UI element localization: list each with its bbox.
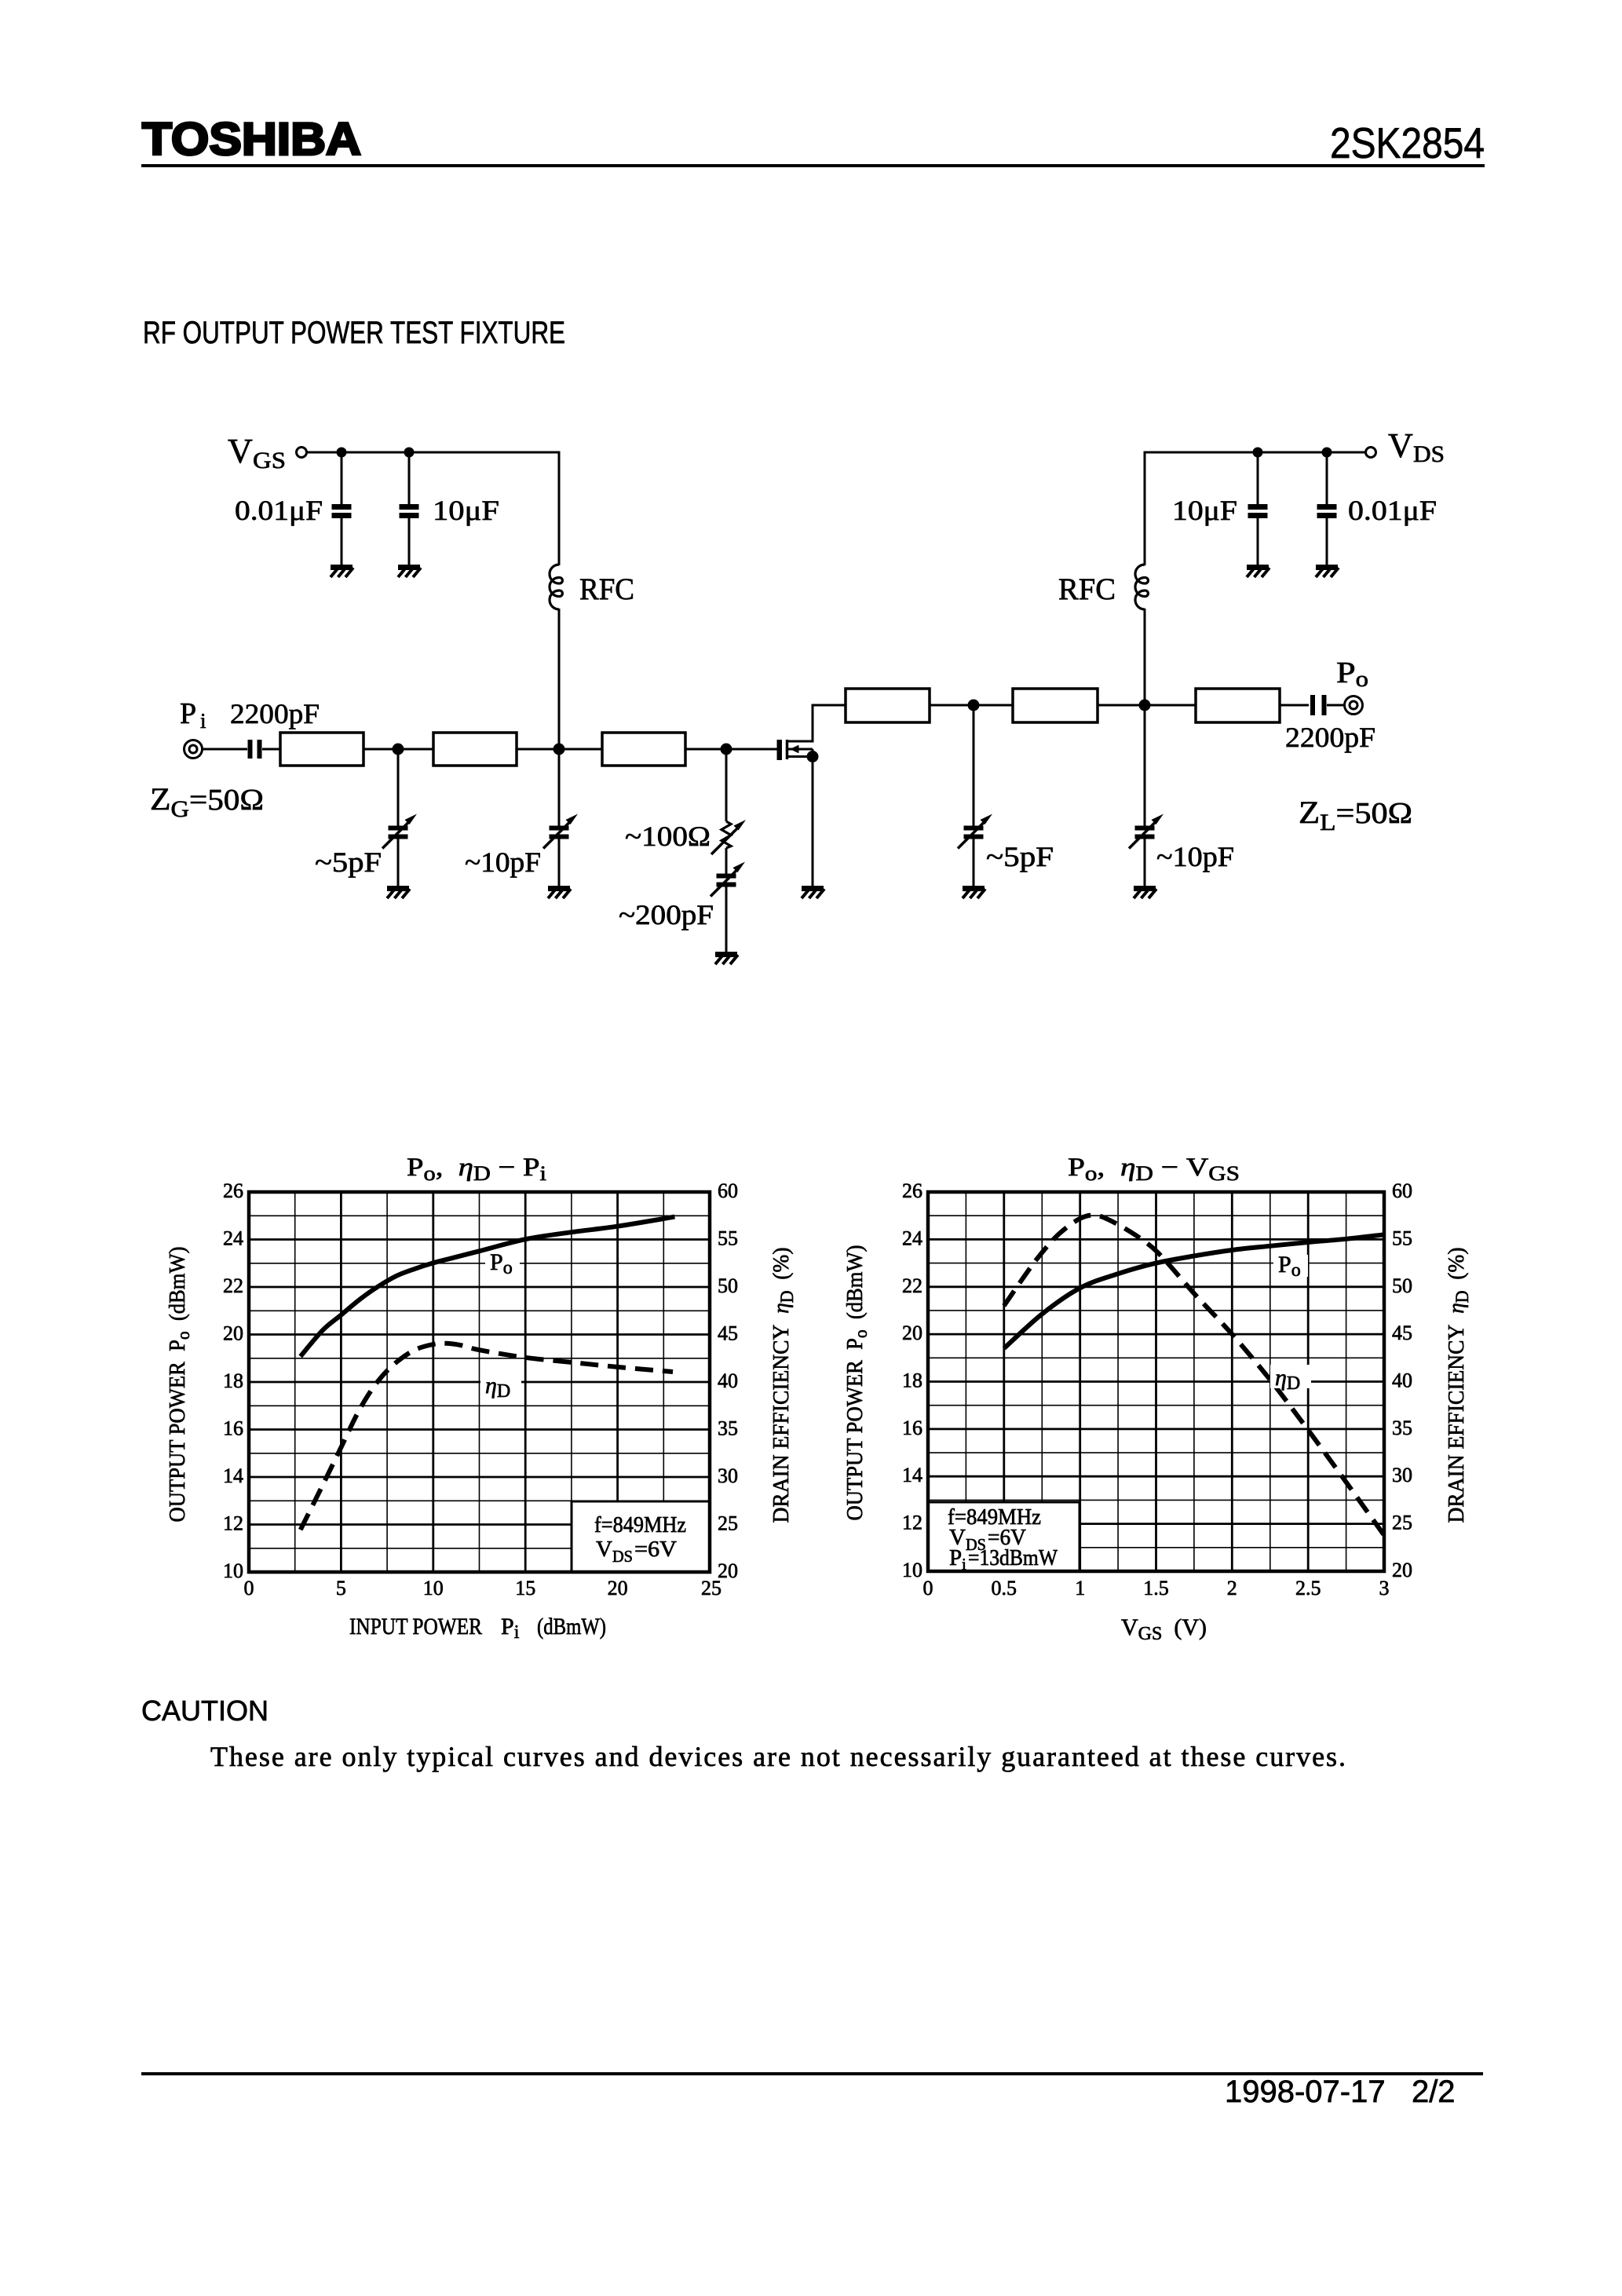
variable capacitor CV4 ~5pF bbox=[958, 814, 992, 849]
inductor RFC1 bbox=[550, 565, 562, 609]
svg-text:TOSHIBA: TOSHIBA bbox=[142, 114, 361, 165]
svg-text:=13dBmW: =13dBmW bbox=[968, 1545, 1058, 1570]
wire RFC1 to gate line junction bbox=[558, 609, 561, 749]
transmission line TL5 bbox=[1013, 689, 1098, 722]
svg-text:2200pF: 2200pF bbox=[1285, 722, 1375, 753]
wire drain line to TL4 bbox=[812, 704, 846, 707]
svg-text:20: 20 bbox=[902, 1322, 922, 1344]
transistor Q1 channel bbox=[786, 740, 789, 759]
svg-text:DRAIN EFFICIENCY ηD (%): DRAIN EFFICIENCY ηD (%) bbox=[769, 1248, 797, 1523]
svg-text:~5pF: ~5pF bbox=[315, 846, 382, 878]
capacitor C4 10uF plates bbox=[1248, 507, 1268, 516]
wire CV3 to ground bbox=[725, 887, 728, 952]
svg-text:10μF: 10μF bbox=[433, 495, 499, 526]
junction node D bbox=[968, 700, 980, 711]
graph1 curve etaD (dashed) bbox=[301, 1344, 673, 1530]
wire VDS rail drop to RFC2 bbox=[1144, 452, 1146, 566]
svg-text:50: 50 bbox=[1392, 1274, 1412, 1297]
ground under C4 bbox=[1247, 568, 1269, 578]
svg-text:=6V: =6V bbox=[634, 1537, 677, 1562]
graph1 x tick labels bbox=[244, 1577, 722, 1600]
svg-text:26: 26 bbox=[223, 1179, 243, 1202]
svg-text:10: 10 bbox=[223, 1559, 243, 1582]
svg-text:1998-07-17 2/2: 1998-07-17 2/2 bbox=[1225, 2075, 1456, 2109]
svg-text:35: 35 bbox=[718, 1417, 738, 1440]
svg-text:OUTPUT POWER Po (dBmW): OUTPUT POWER Po (dBmW) bbox=[165, 1247, 193, 1523]
svg-text:25: 25 bbox=[701, 1577, 721, 1600]
transistor Q1 source stub bbox=[787, 755, 813, 758]
wire TL3 to gate bbox=[685, 748, 777, 751]
graph2 curve Po (solid) bbox=[1004, 1234, 1384, 1348]
svg-text:P: P bbox=[949, 1545, 962, 1570]
wire node A to CV1 bbox=[397, 749, 400, 826]
wire TL5 to TL6 bbox=[1098, 704, 1196, 707]
svg-text:25: 25 bbox=[1392, 1512, 1412, 1534]
svg-text:15: 15 bbox=[515, 1577, 535, 1600]
ground under Q1 source bbox=[802, 889, 824, 899]
svg-text:12: 12 bbox=[223, 1512, 243, 1535]
graph1 frame bbox=[249, 1192, 710, 1572]
ground under C5 bbox=[1316, 568, 1339, 578]
svg-text:DS: DS bbox=[612, 1547, 633, 1566]
svg-text:RFC: RFC bbox=[1058, 572, 1116, 606]
svg-text:2.5: 2.5 bbox=[1295, 1577, 1321, 1600]
junction node C bbox=[721, 744, 732, 755]
variable capacitor CV5 ~10pF bbox=[1129, 814, 1164, 849]
svg-text:25: 25 bbox=[718, 1512, 738, 1535]
svg-text:26: 26 bbox=[902, 1179, 922, 1202]
svg-text:10μF: 10μF bbox=[1172, 495, 1237, 526]
svg-text:1: 1 bbox=[1075, 1577, 1085, 1600]
svg-text:These are only typical curves: These are only typical curves and device… bbox=[210, 1741, 1346, 1772]
wire C1 bottom lead bbox=[341, 517, 343, 565]
graph2 left tick labels bbox=[902, 1179, 922, 1581]
graph2 x tick labels bbox=[923, 1577, 1390, 1600]
svg-text:P: P bbox=[180, 697, 196, 730]
svg-text:0.01μF: 0.01μF bbox=[235, 495, 323, 526]
variable capacitor CV2 ~10pF bbox=[543, 814, 578, 849]
svg-text:ZG=50Ω: ZG=50Ω bbox=[150, 781, 264, 822]
svg-text:ZL=50Ω: ZL=50Ω bbox=[1299, 795, 1412, 835]
wire RV1 to CV3 bbox=[725, 848, 728, 874]
svg-text:~10pF: ~10pF bbox=[465, 846, 541, 878]
svg-text:18: 18 bbox=[902, 1369, 922, 1392]
wire RFC2 to drain line junction bbox=[1144, 609, 1146, 705]
transmission line TL4 bbox=[846, 689, 930, 722]
svg-text:0: 0 bbox=[923, 1577, 933, 1600]
svg-text:10: 10 bbox=[423, 1577, 444, 1600]
svg-text:5: 5 bbox=[336, 1577, 346, 1600]
svg-text:3: 3 bbox=[1379, 1577, 1390, 1600]
wire CV4 to ground bbox=[973, 839, 975, 886]
wire VGS rail bbox=[307, 452, 559, 454]
graph1 curve label etaD bbox=[480, 1373, 521, 1396]
wire VDS rail bbox=[1145, 452, 1365, 454]
transmission line TL1 bbox=[280, 733, 363, 766]
graph1 legend box bbox=[572, 1501, 710, 1572]
graph2 frame bbox=[928, 1192, 1384, 1571]
graph1 grid bbox=[249, 1192, 710, 1572]
wire C3 to TL1 bbox=[262, 748, 280, 751]
svg-text:45: 45 bbox=[1392, 1322, 1412, 1344]
transistor Q1 gate bar bbox=[777, 740, 783, 760]
ground under CV3 bbox=[715, 955, 738, 965]
svg-text:22: 22 bbox=[223, 1274, 243, 1297]
svg-text:24: 24 bbox=[902, 1227, 922, 1249]
footer rule bbox=[141, 2072, 1483, 2075]
ground under CV2 bbox=[548, 889, 571, 899]
graph1 right tick labels bbox=[718, 1179, 738, 1582]
svg-text:60: 60 bbox=[718, 1179, 738, 1202]
svg-text:DS: DS bbox=[1413, 441, 1445, 467]
junction on VDS rail at C5 bbox=[1322, 448, 1332, 458]
svg-text:RFC: RFC bbox=[579, 572, 634, 606]
svg-text:20: 20 bbox=[1392, 1559, 1412, 1581]
svg-text:(dBmW): (dBmW) bbox=[537, 1614, 606, 1640]
ground under CV5 bbox=[1134, 889, 1156, 899]
svg-text:~100Ω: ~100Ω bbox=[625, 821, 711, 852]
svg-text:0.5: 0.5 bbox=[992, 1577, 1017, 1600]
svg-text:35: 35 bbox=[1392, 1417, 1412, 1439]
variable capacitor CV3 ~200pF bbox=[711, 862, 745, 897]
svg-text:~5pF: ~5pF bbox=[986, 841, 1054, 872]
wire TL6 to C6 bbox=[1280, 704, 1309, 707]
svg-text:55: 55 bbox=[1392, 1227, 1412, 1249]
wire node B to CV2 bbox=[558, 749, 561, 826]
svg-text:1.5: 1.5 bbox=[1143, 1577, 1169, 1600]
wire TL2 to TL3 bbox=[517, 748, 602, 751]
wire C2 bottom lead bbox=[408, 517, 411, 565]
svg-text:i: i bbox=[200, 709, 206, 733]
transmission line TL6 bbox=[1196, 689, 1280, 722]
junction node B (RFC1 tap) bbox=[553, 744, 565, 755]
transistor Q1 body arrow bbox=[787, 748, 813, 751]
graph2 grid bbox=[928, 1192, 1384, 1571]
svg-text:14: 14 bbox=[902, 1464, 922, 1486]
wire C2 top lead bbox=[408, 452, 411, 505]
svg-text:INPUT POWER: INPUT POWER bbox=[349, 1614, 482, 1640]
svg-text:OUTPUT POWER Po (dBmW): OUTPUT POWER Po (dBmW) bbox=[842, 1245, 871, 1521]
ground under CV1 bbox=[387, 889, 410, 899]
svg-text:60: 60 bbox=[1392, 1179, 1412, 1202]
node VDS terminal bbox=[1366, 448, 1376, 458]
variable resistor RV1 ~100ohm bbox=[721, 821, 731, 848]
svg-text:10: 10 bbox=[902, 1559, 922, 1581]
svg-text:V: V bbox=[228, 432, 253, 470]
transmission line TL2 bbox=[433, 733, 517, 766]
transmission line TL3 bbox=[602, 733, 685, 766]
svg-text:i: i bbox=[962, 1555, 966, 1574]
junction on VDS rail at C4 bbox=[1253, 448, 1263, 458]
wire C1 top lead bbox=[341, 452, 343, 505]
capacitor C6 2200pF series bbox=[1310, 695, 1315, 715]
svg-text:RF OUTPUT POWER TEST FIXTURE: RF OUTPUT POWER TEST FIXTURE bbox=[143, 316, 565, 350]
svg-text:12: 12 bbox=[902, 1512, 922, 1534]
svg-text:40: 40 bbox=[1392, 1369, 1412, 1392]
wire Q1 source to ground bbox=[812, 749, 814, 886]
header rule bbox=[141, 164, 1485, 167]
capacitor C1 0.01uF plates bbox=[332, 507, 352, 516]
graph2 legend box bbox=[928, 1502, 1080, 1571]
wire CV1 to ground bbox=[397, 839, 400, 886]
wire C5 top lead bbox=[1326, 452, 1328, 505]
svg-text:VGS (V): VGS (V) bbox=[1121, 1614, 1207, 1644]
wire TL4 to TL5 bbox=[930, 704, 1013, 707]
svg-text:~200pF: ~200pF bbox=[619, 899, 714, 930]
svg-text:CAUTION: CAUTION bbox=[141, 1695, 269, 1727]
junction Q1 source-body tie bbox=[807, 751, 819, 762]
svg-text:24: 24 bbox=[223, 1227, 243, 1250]
svg-text:45: 45 bbox=[718, 1322, 738, 1345]
wire C6 to Po bbox=[1327, 704, 1344, 707]
junction node E (RFC2 tap) bbox=[1139, 700, 1151, 711]
svg-text:f=849MHz: f=849MHz bbox=[594, 1512, 686, 1537]
svg-text:V: V bbox=[1388, 426, 1413, 465]
svg-text:22: 22 bbox=[902, 1274, 922, 1297]
wire node C to RV1 bbox=[725, 749, 728, 821]
ground under C1 bbox=[331, 568, 353, 578]
wire CV2 to ground bbox=[558, 839, 561, 886]
graph1 curve label Po bbox=[485, 1252, 520, 1274]
wire C5 bottom lead bbox=[1326, 517, 1328, 565]
svg-text:18: 18 bbox=[223, 1369, 243, 1392]
node VGS terminal bbox=[297, 448, 307, 458]
capacitor C2 10uF plates bbox=[400, 507, 419, 516]
svg-text:DRAIN EFFICIENCY ηD (%): DRAIN EFFICIENCY ηD (%) bbox=[1444, 1248, 1472, 1523]
variable capacitor CV1 ~5pF bbox=[382, 814, 417, 849]
svg-text:2: 2 bbox=[1227, 1577, 1237, 1600]
graph1 left tick labels bbox=[223, 1179, 243, 1582]
wire C4 top lead bbox=[1257, 452, 1259, 505]
svg-text:55: 55 bbox=[718, 1227, 738, 1250]
graph2 right tick labels bbox=[1392, 1179, 1412, 1581]
transistor Q1 drain stub bbox=[787, 740, 813, 743]
inductor RFC2 bbox=[1135, 565, 1148, 609]
graph2 curve etaD (dashed) bbox=[1004, 1215, 1384, 1535]
svg-text:20: 20 bbox=[223, 1322, 243, 1345]
svg-text:16: 16 bbox=[223, 1417, 243, 1440]
wire TL1 to TL2 bbox=[363, 748, 433, 751]
svg-text:GS: GS bbox=[253, 448, 286, 473]
wire Pi to C3 bbox=[203, 748, 247, 751]
svg-text:16: 16 bbox=[902, 1417, 922, 1439]
wire VGS rail drop to RFC1 bbox=[558, 452, 561, 566]
svg-text:20: 20 bbox=[608, 1577, 628, 1600]
svg-text:14: 14 bbox=[223, 1464, 243, 1487]
junction on VGS rail at C2 bbox=[404, 448, 415, 458]
wire Q1 drain riser bbox=[812, 705, 814, 743]
svg-text:V: V bbox=[596, 1537, 612, 1562]
graph1 curve Po (solid) bbox=[301, 1217, 675, 1357]
wire C4 bottom lead bbox=[1257, 517, 1259, 565]
wire node D to CV4 bbox=[973, 705, 975, 826]
node Pi input connector bbox=[184, 740, 203, 759]
graph2 curve label etaD bbox=[1270, 1365, 1311, 1388]
svg-text:0: 0 bbox=[244, 1577, 254, 1600]
junction on VGS rail at C1 bbox=[337, 448, 347, 458]
capacitor C3 2200pF series bbox=[248, 740, 253, 759]
junction node A bbox=[393, 744, 404, 755]
capacitor C5 0.01uF plates bbox=[1317, 507, 1337, 516]
wire CV5 to ground bbox=[1144, 839, 1146, 886]
svg-text:0.01μF: 0.01μF bbox=[1348, 495, 1437, 526]
ground under C2 bbox=[398, 568, 421, 578]
node Po output connector bbox=[1345, 696, 1363, 715]
ground under CV4 bbox=[963, 889, 985, 899]
svg-text:2SK2854: 2SK2854 bbox=[1330, 119, 1485, 167]
svg-text:2200pF: 2200pF bbox=[230, 698, 320, 729]
svg-text:40: 40 bbox=[718, 1369, 738, 1392]
svg-text:30: 30 bbox=[718, 1464, 738, 1487]
wire node E to CV5 bbox=[1144, 705, 1146, 826]
svg-text:~10pF: ~10pF bbox=[1156, 841, 1234, 872]
graph2 curve label Po bbox=[1273, 1255, 1308, 1277]
svg-text:50: 50 bbox=[718, 1274, 738, 1297]
svg-text:30: 30 bbox=[1392, 1464, 1412, 1486]
